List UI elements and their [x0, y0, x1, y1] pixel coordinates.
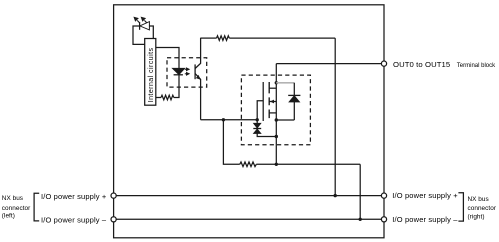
- svg-text:(right): (right): [468, 214, 485, 221]
- svg-text:I/O power supply –: I/O power supply –: [392, 215, 458, 224]
- optocoupler dashed box: [167, 58, 207, 87]
- opto light arrow b: [185, 73, 187, 75]
- svg-text:Terminal block: Terminal block: [457, 63, 496, 69]
- MOSFET Q2 gate lead: [257, 101, 263, 120]
- diode D1 triangle: [290, 96, 300, 102]
- wire internal circuits to opto LED (top): [156, 48, 179, 69]
- LED1 light arrow a: [137, 20, 139, 22]
- diode D1 vertical: [293, 83, 295, 120]
- resistor R2: [161, 95, 174, 100]
- wire R1 to IO power + dropper: [229, 37, 335, 39]
- internal circuits box U0: [145, 39, 156, 106]
- Q2 drain/source vertical: [275, 64, 277, 165]
- junction dot drain / gray link: [275, 81, 278, 84]
- resistor R1: [217, 36, 230, 41]
- wire R3 to - rail dropper: [256, 163, 360, 165]
- terminal circle left -: [111, 217, 116, 222]
- Q1 emitter: [195, 74, 201, 120]
- junction dot dropper/+rail: [334, 194, 337, 197]
- Q2 body stub with arrow: [269, 101, 276, 103]
- zener Z1 bar: [253, 128, 261, 130]
- svg-text:connector: connector: [2, 205, 31, 212]
- Q2 gate plate: [262, 82, 264, 121]
- terminal circle left +: [111, 193, 116, 198]
- gray link drain to diode D1: [276, 82, 294, 84]
- svg-text:NX bus: NX bus: [2, 195, 23, 202]
- Q1 emitter arrow: [196, 75, 201, 80]
- junction dot gate-wire / zener branch: [256, 118, 259, 121]
- svg-text:Internal circuits: Internal circuits: [148, 48, 155, 103]
- svg-text:I/O power supply +: I/O power supply +: [392, 191, 458, 200]
- MOSFET dashed box: [241, 75, 310, 145]
- wire dropper to - rail: [359, 164, 361, 219]
- zener Z1 triangle down: [254, 124, 260, 128]
- module outer box: [114, 5, 384, 238]
- svg-text:I/O power supply –: I/O power supply –: [41, 216, 107, 225]
- Q2 source line to diode bottom: [276, 119, 294, 121]
- wire R2 to opto LED cathode: [174, 75, 179, 97]
- Q2 drain stub: [269, 87, 276, 89]
- Q1 collector: [195, 38, 201, 69]
- - rail: [116, 218, 381, 220]
- indicator LED loop wire: [133, 26, 153, 44]
- wire dropper to + rail: [334, 38, 336, 196]
- left bracket: [34, 193, 39, 221]
- + rail: [116, 195, 381, 197]
- OUT wire drain to terminal: [276, 63, 381, 65]
- resistor R3: [240, 162, 256, 167]
- LED1 light arrow b: [144, 20, 146, 22]
- diode D1 cathode bar: [288, 94, 300, 96]
- zener Z1 top lead: [256, 120, 258, 124]
- terminal circle right +: [381, 193, 386, 198]
- terminal circle right -: [381, 217, 386, 222]
- svg-text:OUT0 to OUT15: OUT0 to OUT15: [393, 60, 450, 69]
- wire pulldown branch to resistor R3: [223, 120, 239, 165]
- LED1 cathode bar: [139, 22, 141, 30]
- right bracket: [458, 193, 463, 221]
- svg-text:I/O power supply +: I/O power supply +: [41, 192, 107, 201]
- zener Z1 triangle up: [254, 129, 260, 133]
- opto light arrow a: [185, 68, 187, 70]
- wire internal circuits to resistor R2 (bottom): [156, 97, 161, 99]
- LED1 triangle: [140, 22, 150, 30]
- junction dot source line: [275, 118, 278, 121]
- svg-text:NX bus: NX bus: [468, 196, 489, 203]
- zener Z1 bottom lead to source vertical: [257, 133, 276, 136]
- junction dot gate-wire / pulldown branch: [222, 118, 225, 121]
- Q2 source stub: [269, 112, 276, 114]
- junction dot dropper/-rail: [359, 218, 362, 221]
- junction dot zener link: [275, 135, 278, 138]
- phototransistor Q1 base bar: [194, 64, 196, 79]
- Q2 channel dashes: [268, 82, 270, 118]
- opto LED triangle: [173, 69, 184, 75]
- svg-text:(left): (left): [2, 213, 15, 220]
- terminal circle OUT: [381, 61, 386, 66]
- junction dot R3 line / MOSFET source: [275, 163, 278, 166]
- wire Q1 emitter to gate node: [201, 119, 258, 121]
- wire Q1 collector to resistor R1: [201, 37, 217, 39]
- opto LED cathode bar: [174, 74, 183, 76]
- svg-text:connector: connector: [468, 205, 497, 212]
